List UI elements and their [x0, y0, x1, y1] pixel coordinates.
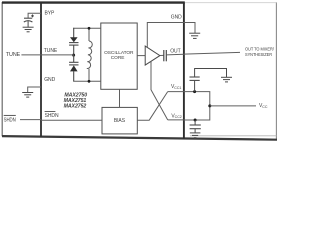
node VCC2 junction — [194, 119, 197, 122]
node SHDN (external label, overline) — [4, 115, 16, 123]
svg-text:TUNE: TUNE — [44, 48, 58, 54]
ground (VCC1 cap) — [221, 77, 232, 82]
wire TUNE external — [21, 54, 41, 56]
oscillator core block U-core — [101, 23, 137, 89]
wire VCC1 external — [184, 92, 210, 120]
wire VCC line — [210, 105, 256, 107]
capacitor C-byp plates — [24, 18, 33, 27]
node OUT TO MIXER/SYNTHESIZER — [245, 47, 274, 57]
varactor D2 (bottom, cathode up) — [69, 55, 78, 81]
wire core to buffer amp — [137, 55, 145, 57]
wire SHDN pin to BIAS — [41, 119, 102, 121]
capacitor C-vcc2 — [190, 120, 201, 133]
ground (BYP cap) — [23, 27, 34, 32]
svg-text:GND: GND — [171, 14, 182, 20]
wire core to bias — [119, 89, 121, 107]
wire BIAS to VCC1 (crossing) — [137, 92, 167, 121]
wire tank top rail — [73, 27, 101, 29]
wire GND pin (left) — [28, 87, 41, 93]
op-amp buffer (output amplifier) — [145, 46, 160, 65]
ground (right GND pin) — [189, 33, 200, 38]
ground (left GND pin) — [22, 93, 33, 98]
node L bottom — [88, 80, 91, 83]
svg-text:SHDN: SHDN — [45, 113, 59, 119]
wire TUNE pin to varactor node — [41, 54, 74, 56]
wire GND pin (right) — [147, 23, 195, 48]
capacitor C-vcc1 — [190, 69, 227, 92]
node VCC junction — [208, 104, 211, 107]
node L top — [88, 27, 91, 30]
varactor D1 (top, cathode down) — [69, 28, 78, 55]
svg-text:BYP: BYP — [45, 11, 56, 17]
inductor L1 — [87, 28, 92, 81]
node TUNE junction — [72, 54, 75, 57]
svg-text:OUT: OUT — [170, 49, 180, 55]
outer figure frame — [2, 2, 277, 140]
wire amp to cap — [160, 54, 164, 56]
bias block — [102, 107, 137, 133]
wire cap to OUT pin — [166, 53, 184, 56]
capacitor C-out (coupling) — [164, 50, 167, 61]
wire SHDN external — [20, 119, 41, 121]
part numbers MAX2750/MAX2751/MAX2752 — [64, 93, 88, 110]
svg-text:SHDN: SHDN — [4, 117, 16, 123]
IC block MAX2750 outline — [2, 3, 185, 139]
node VCC1 junction — [193, 90, 196, 93]
svg-text:CORE: CORE — [111, 55, 125, 61]
pin label SHDN (inside, with overline) — [45, 112, 59, 119]
wire VCC1 pin — [168, 91, 184, 93]
svg-text:MAX2752: MAX2752 — [64, 103, 87, 109]
capacitor C-byp (polarized) plus sign — [31, 15, 34, 18]
wire OUT external — [184, 52, 240, 54]
ground (VCC2 cap) — [190, 133, 201, 138]
svg-text:SYNTHESIZER: SYNTHESIZER — [245, 52, 273, 57]
wire BYP pin — [28, 13, 41, 18]
svg-text:BIAS: BIAS — [114, 118, 126, 124]
wire tank bottom rail — [73, 80, 101, 82]
wire amp bottom supply — [151, 62, 168, 120]
wire VCC2 pin — [168, 119, 184, 121]
svg-text:TUNE: TUNE — [6, 52, 21, 58]
svg-text:GND: GND — [44, 77, 55, 83]
